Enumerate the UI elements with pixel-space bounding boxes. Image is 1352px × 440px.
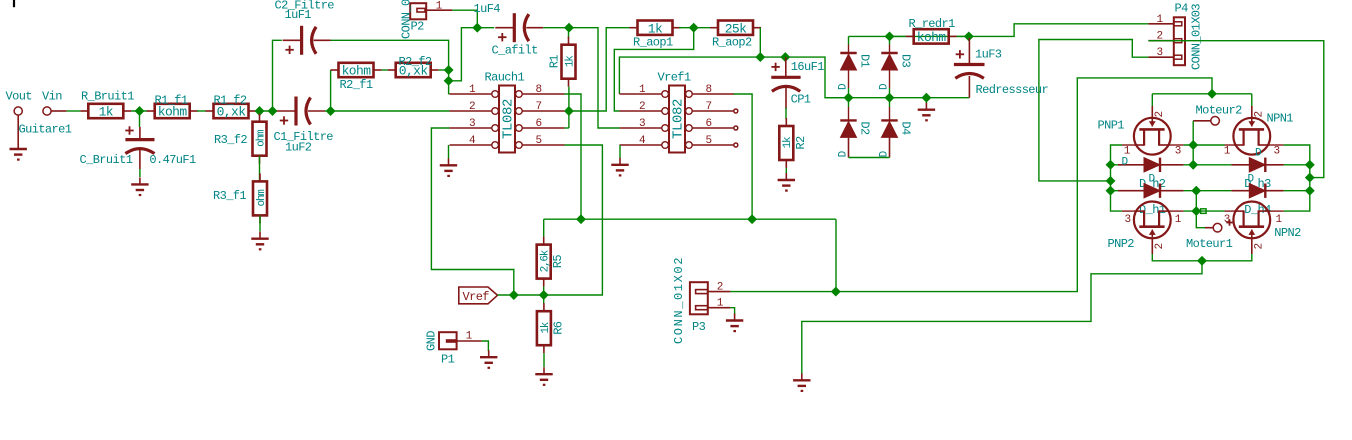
svg-text:ohm: ohm — [255, 129, 267, 147]
node junction at C_Bruit1 — [136, 107, 144, 115]
wire node to Vref1 pin3 — [569, 28, 620, 128]
svg-text:2: 2 — [1254, 243, 1266, 249]
op-amp Rauch1 TL082 — [499, 86, 515, 153]
svg-text:Vref1: Vref1 — [658, 71, 691, 85]
wire node B to C1_Filtre — [273, 110, 278, 112]
node R2_f2 output junction — [445, 66, 453, 74]
node Rauch1 pin7 junction — [565, 107, 573, 115]
svg-text:R6: R6 — [551, 321, 565, 335]
svg-text:3: 3 — [1224, 214, 1230, 226]
wire rail down to R5 — [543, 219, 545, 237]
svg-text:CP1: CP1 — [791, 93, 811, 107]
wire lower diode row — [1111, 190, 1128, 192]
diode D_h1 — [1118, 190, 1184, 192]
wire 1uF3 to mid row — [968, 76, 970, 98]
ground under Rauch1 — [448, 158, 450, 165]
wire R1 bottom to pin7 node — [568, 87, 570, 128]
ground bridge — [925, 103, 927, 110]
wire mid to ground — [925, 98, 927, 104]
svg-text:D: D — [1255, 147, 1262, 159]
svg-text:3: 3 — [1273, 146, 1279, 158]
svg-text:1uF2: 1uF2 — [285, 141, 312, 155]
svg-text:TL082: TL082 — [501, 99, 517, 139]
svg-text:PNP2: PNP2 — [1108, 237, 1135, 251]
wire R2 to ground — [785, 168, 787, 174]
pin Vout — [14, 107, 22, 115]
wire node A down to R3_f2 — [259, 111, 261, 116]
resistor R2 1k vertical — [779, 126, 793, 160]
diode D_h2 — [1118, 164, 1184, 166]
pin Moteur2 — [1211, 117, 1220, 126]
svg-text:3: 3 — [469, 118, 475, 130]
wire R3_f1 to ground — [259, 215, 261, 231]
svg-text:GND: GND — [425, 331, 439, 351]
wire C_Bruit1 to ground — [139, 169, 141, 177]
resistor R3_f1 ohm — [253, 181, 267, 215]
svg-text:1: 1 — [436, 0, 443, 12]
ground under P3 — [734, 314, 736, 321]
svg-text:5: 5 — [705, 135, 711, 147]
wire D3 top — [889, 36, 891, 44]
svg-text:Rauch1: Rauch1 — [485, 71, 525, 85]
wire bottom node to ground run — [802, 261, 1202, 375]
capacitor CP1 16uF1 — [785, 57, 787, 77]
wire R2_f2 to node — [439, 69, 449, 71]
wire Vref1 pin4 to ground — [619, 145, 621, 158]
svg-text:1uF1: 1uF1 — [285, 8, 312, 22]
svg-text:R2_f2: R2_f2 — [399, 55, 432, 69]
svg-text:1k: 1k — [648, 21, 663, 36]
wire Vref node to R6 — [543, 295, 545, 304]
svg-text:kohm: kohm — [342, 64, 372, 79]
resistor R1_f1 kohm — [155, 104, 190, 118]
svg-text:P4: P4 — [1175, 2, 1189, 16]
svg-text:R1_f2: R1_f2 — [214, 94, 247, 108]
svg-text:R_Bruit1: R_Bruit1 — [81, 90, 134, 104]
wire Rauch1 pin3 to Vref node — [431, 128, 513, 295]
wire Rauch1 pin5 to Vref node — [544, 145, 603, 295]
wire down to C_Bruit1 — [139, 111, 141, 127]
svg-text:NPN1: NPN1 — [1267, 112, 1294, 126]
wire R5 to Vref node — [543, 287, 545, 295]
wire Moteur2 node to diode row — [1192, 145, 1194, 165]
svg-text:CONN_01X03: CONN_01X03 — [1190, 4, 1204, 70]
svg-text:CONN_01X01: CONN_01X01 — [400, 0, 414, 39]
svg-text:Moteur2: Moteur2 — [1196, 104, 1243, 118]
wire C1_Filtre to Rauch1 pin2 — [325, 110, 450, 112]
wire lower diode node to bottom row — [1195, 191, 1197, 211]
wire C_afilt to R1 node — [543, 27, 569, 29]
resistor R5 2,6k vertical — [537, 245, 551, 279]
capacitor 1uF3 Redressseur — [968, 38, 970, 65]
node A junction — [256, 107, 264, 115]
svg-text:R_aop1: R_aop1 — [633, 36, 673, 50]
svg-text:1uF3: 1uF3 — [975, 48, 1002, 62]
svg-text:3: 3 — [1175, 146, 1181, 158]
svg-text:C_afilt: C_afilt — [492, 44, 538, 58]
resistor R_aop1 1k — [638, 21, 673, 35]
node D1 mid junction — [845, 94, 853, 102]
svg-text:R2_f1: R2_f1 — [340, 78, 373, 92]
svg-text:2: 2 — [1154, 243, 1166, 249]
node bottom transistor row junction — [1192, 207, 1200, 215]
wire Vin to R_Bruit1 — [51, 110, 67, 112]
svg-text:R2: R2 — [794, 136, 808, 150]
node P3 rail junction — [832, 288, 840, 296]
svg-text:4: 4 — [469, 135, 476, 147]
node left rail junctions — [1107, 161, 1115, 169]
wire R_aop2 output down — [759, 28, 761, 57]
wire D4 bottom — [889, 138, 891, 158]
connector P2 CONN_01X01 — [410, 3, 426, 19]
node rail junction pin8 Vref1 — [748, 215, 756, 223]
svg-text:2: 2 — [639, 101, 645, 113]
svg-text:D: D — [1248, 173, 1255, 185]
wire NPN1 pin3 to right rail — [1270, 144, 1283, 146]
node Moteur2 junction — [1189, 141, 1197, 149]
node CP1 rail junction right — [781, 53, 789, 61]
wire Moteur2 to bridge — [1193, 120, 1211, 122]
wire R1_f2 to node A — [256, 110, 277, 112]
svg-text:1k: 1k — [564, 55, 576, 67]
node R_aop1 output junction — [690, 24, 698, 32]
svg-text:ohm: ohm — [256, 189, 268, 207]
svg-text:R_redr1: R_redr1 — [909, 17, 956, 31]
wire R3_f2 to R3_f1 — [259, 156, 261, 181]
svg-text:2,6k: 2,6k — [540, 249, 552, 272]
resistor R2_f2 0,xk — [396, 63, 431, 77]
node bottom junction — [1198, 257, 1206, 265]
svg-text:D: D — [837, 150, 849, 157]
svg-text:CONN_01X02: CONN_01X02 — [672, 256, 686, 344]
svg-text:3: 3 — [1156, 47, 1162, 59]
svg-text:2: 2 — [1154, 111, 1166, 117]
node P2 junction — [473, 24, 481, 32]
wire NPN2 bottom pin — [1251, 238, 1253, 254]
svg-text:8: 8 — [705, 84, 711, 96]
wire R_aop1 to R_aop2 — [679, 27, 710, 29]
node feedback junction — [445, 77, 453, 85]
wire R6 to ground — [543, 353, 545, 367]
wire node down to R1 — [568, 28, 570, 39]
svg-text:1k: 1k — [782, 136, 794, 148]
wire Rauch1 pin8 to rail — [565, 94, 582, 219]
svg-text:4: 4 — [639, 135, 646, 147]
pin Moteur1 — [1213, 223, 1222, 232]
svg-text:1: 1 — [1275, 214, 1282, 226]
resistor R1 1k vertical — [562, 45, 576, 79]
wire bottom node — [1152, 254, 1252, 261]
diode D3 — [881, 52, 897, 54]
wire R_Bruit1 to R1_f1 — [131, 110, 147, 112]
ground Guitare1 — [17, 142, 19, 149]
wire Moteur1 stub — [1196, 211, 1205, 228]
connector P1 GND — [439, 332, 457, 349]
wire Vref1 pin8 to rail — [734, 94, 753, 219]
wire pin7 to R_aop1 — [569, 28, 634, 111]
no-connect pins 7 6 5 — [734, 109, 738, 113]
svg-text:7: 7 — [535, 101, 541, 113]
node C_afilt output junction — [565, 24, 573, 32]
svg-text:16uF1: 16uF1 — [791, 60, 824, 74]
node right rail junctions — [1306, 161, 1314, 169]
wire upper diode row — [1111, 164, 1128, 166]
node B junction — [269, 107, 277, 115]
resistor R6 1k vertical — [537, 311, 551, 345]
svg-text:1k: 1k — [99, 105, 114, 120]
wire bridge mid row — [825, 97, 969, 99]
wire up to R2_f1 — [330, 70, 332, 111]
svg-text:Moteur1: Moteur1 — [1186, 237, 1233, 251]
node lower diode junction — [1192, 187, 1200, 195]
resistor R2_f1 kohm — [339, 63, 374, 77]
svg-text:P3: P3 — [692, 320, 706, 334]
diode D_h3 — [1231, 164, 1283, 166]
wire D1 top — [848, 36, 850, 44]
wire NPN1 top pin — [1251, 94, 1253, 106]
svg-text:D: D — [878, 150, 890, 157]
svg-text:D: D — [1149, 173, 1156, 185]
node rail junction pin8 Rauch1 — [577, 215, 585, 223]
svg-text:8: 8 — [535, 84, 541, 96]
wire PNP1 top pin — [1151, 94, 1153, 106]
wire PNP1 pin1 to left rail — [1122, 144, 1134, 146]
connector P4 CONN_01X03 — [1174, 17, 1185, 65]
wire D2 top — [848, 98, 850, 107]
wire D1 to mid row — [848, 70, 850, 88]
wire P3 pin1 to ground — [730, 308, 734, 315]
svg-text:D: D — [837, 83, 849, 90]
node D3 mid junction — [886, 94, 894, 102]
wire C_afilt left branch — [449, 28, 495, 81]
svg-text:Redressseur: Redressseur — [976, 83, 1049, 97]
wire Vout to ground — [17, 115, 19, 142]
wire top supply node — [1152, 93, 1252, 95]
diode D1 — [840, 52, 856, 54]
connector P3 CONN_01X02 — [690, 282, 708, 314]
ground under C_Bruit1 — [139, 177, 141, 184]
wire bridge top rail — [849, 35, 969, 37]
svg-text:0.47uF1: 0.47uF1 — [149, 153, 196, 167]
wire top transistor row — [1171, 144, 1184, 146]
svg-text:P1: P1 — [441, 353, 455, 367]
transistor PNP1 — [1134, 118, 1171, 155]
svg-text:7: 7 — [705, 101, 711, 113]
ground under R2 — [785, 173, 787, 180]
svg-text:R3_f2: R3_f2 — [214, 133, 247, 147]
svg-text:3: 3 — [639, 118, 645, 130]
svg-text:1: 1 — [1224, 146, 1231, 158]
resistor R_aop2 25k — [718, 21, 753, 35]
svg-text:D1: D1 — [858, 54, 872, 68]
svg-text:1: 1 — [1175, 214, 1182, 226]
wire R1_f1 to R1_f2 — [197, 110, 206, 112]
svg-text:Guitare1: Guitare1 — [19, 123, 72, 137]
svg-text:R_aop2: R_aop2 — [712, 36, 752, 50]
wire Rauch1 pin4 to ground — [448, 145, 450, 159]
wire bridge bottom row — [849, 157, 890, 159]
node Vref junction right — [540, 291, 548, 299]
node upper diode junction — [1189, 161, 1197, 169]
wire supply rail — [544, 218, 836, 220]
svg-text:R5: R5 — [551, 255, 565, 269]
wire P2 to C_afilt node — [452, 10, 477, 28]
resistor R_redr1 kohm — [914, 29, 949, 43]
wire D3 to mid row — [889, 70, 891, 88]
wire C2_Filtre to R2_f2 node — [331, 40, 450, 93]
diode D2 — [840, 119, 856, 121]
svg-text:2: 2 — [469, 101, 475, 113]
transistor NPN1 — [1233, 118, 1270, 155]
global label Vref — [459, 287, 498, 304]
resistor R_Bruit1 1k — [88, 104, 123, 118]
transistor NPN2 — [1233, 202, 1270, 239]
wire feedback to Vref1 pin2 — [614, 28, 693, 111]
wire P4 pin3 to left rail — [1039, 40, 1149, 181]
capacitor C_afilt 1uF4 — [513, 13, 516, 42]
wire P4 pin2 to right rail — [1148, 41, 1323, 178]
capacitor C_Bruit1 0.47uF1 — [139, 127, 141, 140]
svg-text:D4: D4 — [899, 121, 913, 135]
wire bottom transistor row — [1171, 210, 1184, 212]
node C1_Filtre output junction — [327, 107, 335, 115]
svg-text:PNP1: PNP1 — [1098, 119, 1125, 133]
transistor PNP2 — [1134, 202, 1171, 239]
svg-text:D3: D3 — [899, 54, 913, 68]
svg-text:NPN2: NPN2 — [1274, 226, 1301, 240]
svg-text:1: 1 — [469, 84, 476, 96]
wire Vref label to node — [498, 294, 544, 296]
svg-text:D: D — [878, 83, 890, 90]
svg-text:1: 1 — [1156, 14, 1163, 26]
svg-text:R1_f1: R1_f1 — [155, 94, 188, 108]
capacitor C2_Filtre 1uF1 — [300, 26, 303, 55]
node 1uF3 top junction — [965, 33, 973, 41]
svg-text:TL082: TL082 — [671, 99, 687, 139]
wire P3 pin2 to H-bridge rail — [730, 78, 1212, 292]
svg-text:5: 5 — [535, 135, 541, 147]
svg-text:1: 1 — [466, 330, 473, 342]
wire P4 pin1 to rectifier output — [969, 24, 1149, 37]
node CP1 rail junction left — [756, 53, 764, 61]
svg-text:D: D — [1122, 157, 1129, 169]
svg-text:2: 2 — [1254, 111, 1266, 117]
wire R2_f1 to R2_f2 — [381, 69, 387, 71]
capacitor C1_Filtre 1uF2 — [294, 97, 297, 126]
svg-text:Vref: Vref — [463, 290, 490, 304]
svg-text:2: 2 — [717, 282, 723, 294]
ground under R6 — [543, 367, 545, 374]
ground bottom center — [801, 373, 803, 380]
ground under Vref1 — [619, 158, 621, 165]
node D3 top junction — [886, 33, 894, 41]
wire rail right down to P3 row — [835, 219, 837, 291]
node ground mid junction — [923, 94, 931, 102]
wire PNP2 bottom pin — [1151, 238, 1153, 254]
wire CP1 to R2 — [785, 88, 787, 109]
svg-text:C_Bruit1: C_Bruit1 — [80, 153, 133, 167]
svg-text:25k: 25k — [725, 21, 747, 36]
wire node B up to C2_Filtre — [273, 40, 282, 111]
ground under P1 — [488, 350, 490, 357]
svg-text:D2: D2 — [858, 121, 872, 135]
svg-text:1: 1 — [717, 298, 724, 310]
svg-text:R3_f1: R3_f1 — [213, 189, 246, 203]
ground under R3_f1 — [259, 232, 261, 239]
resistor R3_f2 ohm — [253, 122, 267, 156]
svg-text:1uF4: 1uF4 — [474, 2, 501, 16]
wire D4 top — [889, 98, 891, 107]
wire P1 to ground — [482, 341, 489, 351]
svg-text:R1: R1 — [548, 55, 562, 69]
wire Vref1 pin1 output rail — [619, 57, 848, 98]
resistor R1_f2 0,xk — [214, 104, 249, 118]
node Vref junction left — [510, 291, 518, 299]
svg-text:Vout: Vout — [6, 90, 32, 104]
diode D_h4 — [1231, 190, 1283, 192]
pin Vin — [43, 107, 51, 115]
wire R_redr1 pins — [889, 35, 906, 37]
svg-text:6: 6 — [535, 118, 541, 130]
svg-text:6: 6 — [705, 118, 711, 130]
svg-text:1k: 1k — [540, 321, 552, 333]
wire D2 bottom — [848, 138, 850, 158]
op-amp Vref1 TL082 — [669, 86, 685, 153]
svg-text:Vin: Vin — [42, 90, 62, 104]
svg-text:3: 3 — [1124, 214, 1130, 226]
diode D4 — [881, 119, 897, 121]
svg-text:1: 1 — [639, 84, 646, 96]
sheet border tick — [13, 0, 15, 7]
svg-text:kohm: kohm — [917, 30, 947, 45]
